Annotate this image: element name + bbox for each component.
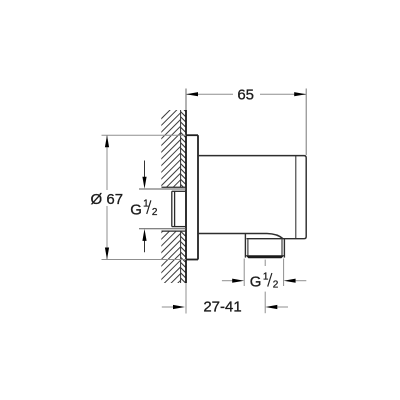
svg-text:1: 1	[263, 272, 269, 283]
svg-text:2: 2	[152, 207, 158, 218]
svg-text:G: G	[130, 202, 142, 219]
svg-text:65: 65	[237, 86, 254, 103]
svg-text:27-41: 27-41	[203, 298, 241, 315]
svg-text:2: 2	[273, 279, 279, 290]
svg-text:Ø 67: Ø 67	[91, 191, 124, 208]
svg-text:G: G	[250, 274, 262, 291]
